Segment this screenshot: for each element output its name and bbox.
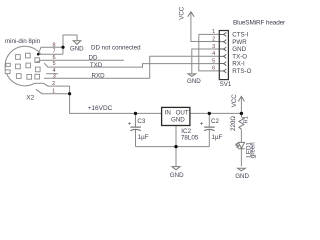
svg-text:4: 4 xyxy=(212,51,215,57)
svg-text:6: 6 xyxy=(212,66,215,72)
svg-text:3: 3 xyxy=(53,73,56,79)
svg-text:+: + xyxy=(200,121,204,128)
svg-text:1: 1 xyxy=(212,29,215,35)
svg-text:SV1: SV1 xyxy=(220,81,232,88)
svg-text:VCC: VCC xyxy=(179,6,186,20)
svg-text:DD: DD xyxy=(89,55,98,62)
svg-text:X2: X2 xyxy=(26,95,34,102)
svg-text:GND: GND xyxy=(232,46,246,53)
svg-text:GND: GND xyxy=(187,78,201,85)
svg-text:GND: GND xyxy=(170,172,184,179)
svg-text:TX-O: TX-O xyxy=(232,53,247,60)
svg-text:3: 3 xyxy=(212,44,215,50)
svg-text:5: 5 xyxy=(212,58,215,64)
svg-text:DD not connected: DD not connected xyxy=(91,44,141,51)
svg-text:78L05: 78L05 xyxy=(181,134,199,141)
svg-text:R1: R1 xyxy=(243,116,249,123)
svg-text:CTS-I: CTS-I xyxy=(232,32,248,39)
svg-text:1: 1 xyxy=(52,88,55,94)
svg-text:RX-I: RX-I xyxy=(232,61,245,68)
svg-text:mini-din 8pin: mini-din 8pin xyxy=(5,38,41,45)
svg-text:RXD: RXD xyxy=(92,72,106,79)
svg-text:+16VDC: +16VDC xyxy=(88,105,113,112)
svg-text:VCC: VCC xyxy=(231,94,238,108)
svg-text:1µF: 1µF xyxy=(138,134,149,141)
svg-text:OUT: OUT xyxy=(176,109,189,116)
svg-text:IN: IN xyxy=(165,109,171,116)
svg-text:5: 5 xyxy=(53,61,56,67)
svg-text:C2: C2 xyxy=(211,118,219,125)
svg-text:RTS-O: RTS-O xyxy=(232,68,251,75)
svg-text:GND: GND xyxy=(70,46,84,53)
svg-text:TXD: TXD xyxy=(90,62,103,69)
svg-text:7: 7 xyxy=(53,48,56,54)
svg-text:GND: GND xyxy=(235,173,249,180)
svg-text:+: + xyxy=(128,121,132,128)
svg-text:2: 2 xyxy=(212,37,215,43)
svg-text:1µF: 1µF xyxy=(212,134,223,141)
svg-text:220Ω: 220Ω xyxy=(230,116,237,131)
svg-text:2: 2 xyxy=(52,81,55,87)
svg-text:C3: C3 xyxy=(137,118,145,125)
svg-text:PWR: PWR xyxy=(232,39,247,46)
svg-text:GND: GND xyxy=(171,117,185,124)
svg-text:green: green xyxy=(250,142,257,158)
svg-text:BlueSMiRF header: BlueSMiRF header xyxy=(233,20,286,27)
